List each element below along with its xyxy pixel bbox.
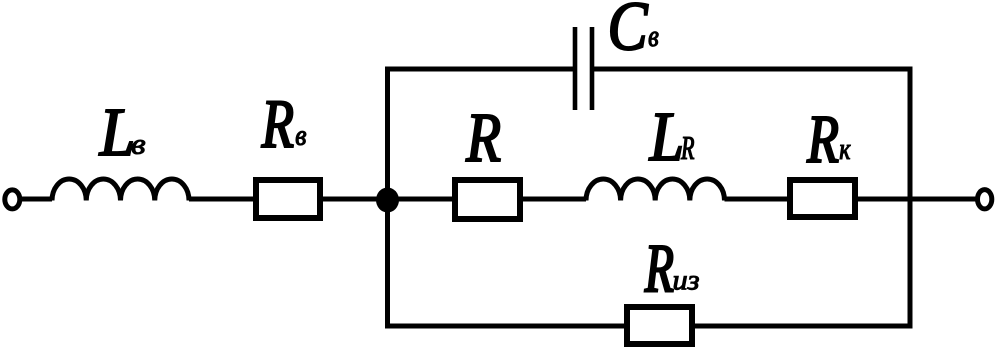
label R: [466, 115, 500, 161]
inductor Lв: [52, 179, 189, 201]
label Rк: [807, 117, 838, 162]
label LR: [649, 114, 681, 160]
resistor Rиз: [627, 307, 692, 344]
inductor LR: [586, 179, 725, 201]
resistor Rв: [256, 180, 320, 218]
label Rиз: [645, 246, 673, 291]
resistor R: [455, 180, 520, 219]
capacitor Cв: [575, 27, 592, 110]
node A: [376, 188, 399, 213]
wire: [385, 324, 624, 329]
wire: [385, 69, 390, 326]
terminal left: [5, 190, 20, 209]
wire: [725, 197, 788, 202]
resistor Rк: [790, 180, 855, 217]
wire: [385, 67, 575, 72]
label Lв: [99, 110, 132, 155]
wire: [592, 67, 913, 72]
wire: [523, 197, 586, 202]
wire: [189, 197, 254, 202]
wire: [21, 197, 52, 202]
wire: [858, 197, 976, 202]
label Rв: [261, 101, 292, 147]
wire: [908, 69, 913, 326]
wire: [323, 197, 452, 202]
wire: [695, 324, 913, 329]
label Cв: [611, 3, 648, 50]
terminal right: [978, 190, 992, 209]
